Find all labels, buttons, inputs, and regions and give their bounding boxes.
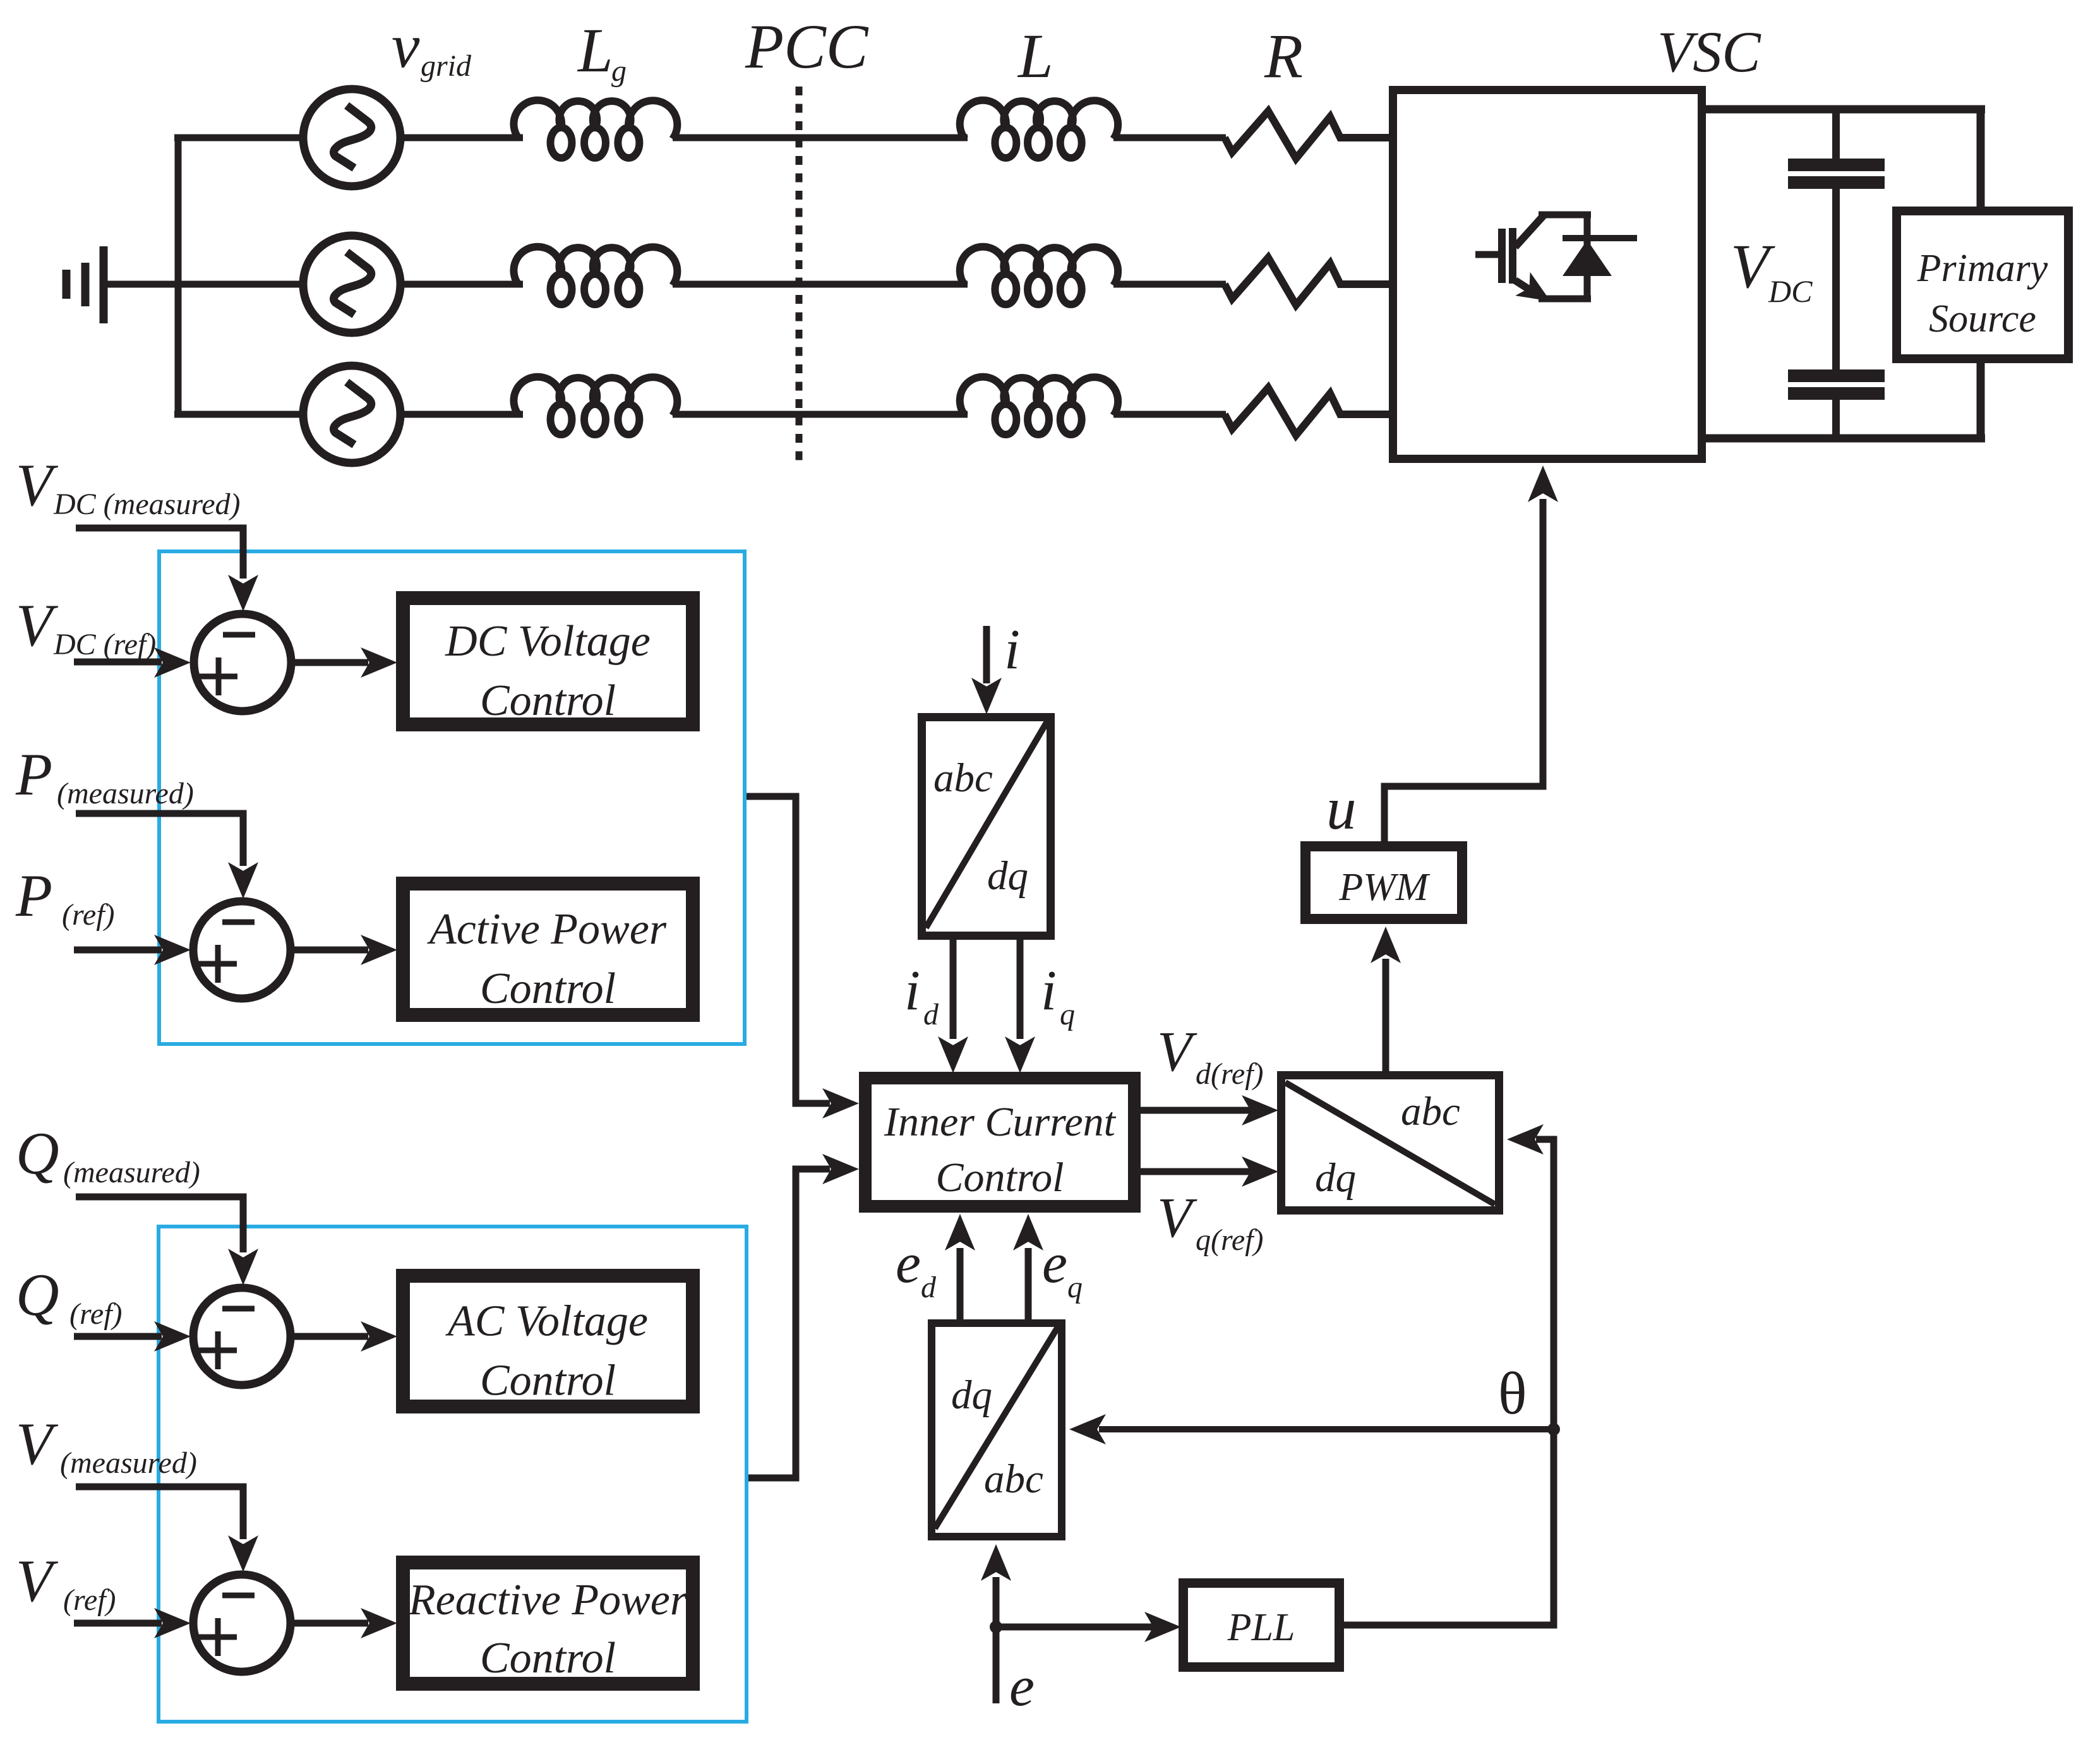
- svg-text:q(ref): q(ref): [1196, 1223, 1264, 1257]
- VSC box U1: [1393, 90, 1702, 459]
- wire V(ref) into summing junction: [74, 1608, 191, 1638]
- svg-text:u: u: [1326, 775, 1357, 842]
- svg-text:d(ref): d(ref): [1196, 1057, 1264, 1091]
- wire iq arrow: [1005, 940, 1035, 1073]
- label Lg: [577, 15, 627, 88]
- svg-text:DC (ref): DC (ref): [53, 628, 156, 661]
- svg-text:L: L: [577, 15, 613, 85]
- svg-text:Q: Q: [16, 1261, 59, 1328]
- svg-text:P: P: [15, 862, 52, 929]
- label AC Voltage Control: [445, 1297, 648, 1405]
- abc to dq block: [922, 717, 1051, 936]
- svg-text:d: d: [921, 1271, 937, 1304]
- wire eq arrow: [1013, 1214, 1043, 1319]
- wire: phase B from bus to source: [174, 281, 299, 288]
- wire summing junction S1 to box: [295, 647, 397, 678]
- svg-text:g: g: [611, 54, 627, 88]
- wire dq-abc to PWM with arrow: [1371, 927, 1401, 1071]
- control group box 2 (cyan): [159, 1227, 747, 1722]
- inductor L1: [960, 100, 1118, 158]
- svg-text:R: R: [1264, 21, 1303, 91]
- IGBT Q1 right rail: [1584, 212, 1591, 302]
- AC source VS3: [303, 366, 400, 463]
- label Q(measured): [16, 1120, 200, 1189]
- svg-text:(measured): (measured): [63, 1156, 200, 1189]
- wire e vertical with arrow into lower block: [981, 1544, 1011, 1703]
- Reactive Power Control box: [403, 1563, 693, 1684]
- svg-text:e: e: [896, 1232, 921, 1295]
- wire phase B L to R: [1113, 281, 1226, 288]
- svg-text:Control: Control: [480, 1357, 616, 1405]
- wire control group 2 to Inner Current Control: [748, 1154, 859, 1478]
- label v_grid: [392, 11, 472, 83]
- svg-text:Inner Current: Inner Current: [884, 1099, 1117, 1145]
- svg-text:DC: DC: [1768, 273, 1813, 309]
- wire summing junction S2 to box: [294, 935, 397, 965]
- wire control group 1 to Inner Current Control: [747, 796, 859, 1119]
- wire capacitor string vertical top: [1832, 109, 1840, 160]
- svg-text:Primary: Primary: [1917, 247, 2048, 290]
- svg-text:Control: Control: [480, 676, 616, 725]
- label Vq(ref): [1157, 1187, 1264, 1257]
- wire DC+ rail: [1706, 105, 1985, 114]
- label Active Power Control: [427, 905, 667, 1013]
- IGBT Q1 top rail: [1539, 212, 1591, 219]
- wire i input arrow: [971, 626, 1002, 714]
- AC source VS2: [303, 236, 400, 333]
- svg-text:PWM: PWM: [1338, 866, 1431, 909]
- DC Voltage Control box: [403, 598, 693, 724]
- svg-text:V: V: [1157, 1187, 1197, 1249]
- wire phase A Lg to L: [673, 135, 968, 141]
- svg-text:q: q: [1067, 1271, 1083, 1304]
- IGBT Q1 gate bar 1: [1498, 229, 1506, 283]
- svg-text:grid: grid: [421, 49, 472, 83]
- PWM box: [1305, 846, 1462, 919]
- IGBT Q1 collector stroke: [1515, 214, 1545, 247]
- wire Vd(ref) arrow: [1141, 1095, 1278, 1125]
- svg-text:DC (measured): DC (measured): [53, 488, 241, 521]
- wire theta vertical from PLL: [1344, 1139, 1554, 1625]
- svg-text:abc: abc: [984, 1456, 1043, 1502]
- svg-text:v: v: [392, 11, 420, 81]
- svg-text:P: P: [15, 741, 52, 808]
- label eq: [1042, 1232, 1083, 1304]
- capacitor C1: [1788, 165, 1885, 183]
- wire summing junction S3 to box: [294, 1321, 397, 1352]
- svg-text:V: V: [16, 592, 59, 659]
- svg-text:Reactive Power: Reactive Power: [408, 1576, 688, 1624]
- wire V(measured) into summing junction: [76, 1487, 258, 1572]
- svg-text:dq: dq: [987, 853, 1028, 899]
- control group box 1 (cyan): [159, 551, 745, 1044]
- svg-text:DC Voltage: DC Voltage: [445, 617, 651, 666]
- junction theta: [1547, 1423, 1560, 1436]
- label iq: [1041, 959, 1075, 1031]
- inductor Lg1: [513, 100, 677, 158]
- label VDC (measured): [16, 452, 241, 521]
- svg-text:Source: Source: [1929, 297, 2036, 340]
- resistor R1: [1225, 111, 1389, 159]
- inductor Lg2: [513, 247, 677, 304]
- label Vd(ref): [1157, 1021, 1264, 1091]
- svg-text:V: V: [1157, 1021, 1197, 1083]
- wire VDC (ref) into summing junction: [74, 647, 191, 678]
- label VDC (ref): [16, 592, 156, 661]
- wire phase C L to R: [1113, 411, 1226, 418]
- IGBT Q1 gate bar 2: [1509, 228, 1516, 284]
- wire e to PLL with arrow: [996, 1612, 1181, 1642]
- Inner Current Control box: [865, 1078, 1134, 1206]
- svg-text:(ref): (ref): [69, 1297, 123, 1331]
- wire Q(measured) into summing junction: [76, 1197, 258, 1285]
- svg-text:Control: Control: [480, 1634, 616, 1683]
- label Inner Current Control: [884, 1099, 1117, 1201]
- label P(ref): [15, 862, 115, 932]
- wire Q(ref) into summing junction: [74, 1321, 191, 1352]
- wire DC- rail: [1706, 435, 1985, 443]
- wire Vq(ref) arrow: [1141, 1156, 1278, 1187]
- svg-text:dq: dq: [1315, 1155, 1356, 1201]
- ground: [66, 246, 178, 323]
- wire phase A L to R: [1113, 135, 1226, 141]
- wire phase B Lg to L: [673, 281, 968, 288]
- label P(measured): [15, 741, 194, 810]
- wire P(ref) into summing junction: [74, 935, 191, 965]
- wire P(measured) into summing junction: [76, 813, 258, 899]
- svg-text:i: i: [1041, 959, 1057, 1022]
- dq to abc block: [1281, 1076, 1499, 1211]
- svg-text:(ref): (ref): [63, 1583, 116, 1617]
- svg-text:(measured): (measured): [60, 1446, 197, 1480]
- wire between capacitors: [1832, 189, 1840, 371]
- wire capacitor string vertical bottom: [1832, 400, 1840, 438]
- svg-text:(ref): (ref): [62, 898, 115, 932]
- IGBT Q1 emitter stroke with arrow: [1515, 272, 1551, 301]
- label Q(ref): [16, 1261, 123, 1331]
- junction e: [990, 1621, 1002, 1633]
- diode D1 triangle: [1563, 240, 1612, 276]
- wire id arrow: [938, 940, 968, 1073]
- wire phase A source to Lg: [404, 135, 523, 141]
- svg-text:q: q: [1060, 998, 1075, 1031]
- svg-text:abc: abc: [1401, 1089, 1460, 1134]
- svg-text:Q: Q: [16, 1120, 59, 1187]
- svg-text:Control: Control: [480, 964, 616, 1013]
- wire summing junction S4 to box: [294, 1608, 397, 1638]
- summing junction S1: [194, 614, 291, 711]
- inductor L2: [960, 247, 1118, 304]
- PCC dashed line: [796, 87, 803, 465]
- svg-text:V: V: [16, 1410, 59, 1477]
- svg-text:L: L: [1017, 21, 1053, 91]
- svg-text:Control: Control: [936, 1155, 1064, 1201]
- resistor R3: [1225, 388, 1389, 435]
- svg-text:V: V: [16, 452, 59, 519]
- wire: phase A from bus to source: [174, 135, 299, 141]
- diode D1 cathode bar: [1563, 235, 1637, 241]
- wire phase C Lg to L: [673, 411, 968, 418]
- svg-text:PLL: PLL: [1227, 1606, 1295, 1649]
- svg-text:θ: θ: [1498, 1360, 1527, 1427]
- svg-text:d: d: [923, 998, 939, 1031]
- inductor L3: [960, 377, 1118, 435]
- label VDC: [1731, 231, 1813, 309]
- wire: neutral bus vertical: [175, 135, 182, 418]
- svg-text:VSC: VSC: [1657, 20, 1761, 84]
- wire: phase C from bus to source: [174, 411, 299, 418]
- svg-text:AC Voltage: AC Voltage: [445, 1297, 648, 1346]
- summing junction S2: [193, 901, 291, 999]
- svg-text:e: e: [1042, 1232, 1067, 1295]
- Primary Source box: [1897, 211, 2068, 359]
- AC Voltage Control box: [403, 1276, 693, 1407]
- wire phase C source to Lg: [404, 411, 523, 418]
- label Primary Source: [1917, 247, 2048, 340]
- svg-text:i: i: [1004, 618, 1020, 681]
- svg-text:i: i: [904, 959, 920, 1022]
- Active Power Control box: [403, 884, 693, 1015]
- label V(ref): [16, 1547, 116, 1617]
- label Reactive Power Control: [408, 1576, 688, 1683]
- IGBT Q1 gate lead: [1475, 251, 1498, 258]
- capacitor C2: [1788, 376, 1885, 393]
- label id: [904, 959, 939, 1031]
- svg-text:(measured): (measured): [57, 777, 194, 810]
- wire phase B source to Lg: [404, 281, 523, 288]
- wire u from PWM to VSC with arrow: [1384, 465, 1558, 841]
- svg-text:abc: abc: [933, 755, 993, 801]
- inductor Lg3: [513, 377, 677, 435]
- AC source VS1: [303, 89, 400, 186]
- PLL box: [1184, 1583, 1340, 1667]
- wire DC right vertical: [1977, 105, 1985, 442]
- resistor R2: [1225, 258, 1389, 305]
- svg-text:PCC: PCC: [745, 11, 869, 81]
- wire ed arrow: [945, 1214, 975, 1319]
- svg-text:V: V: [16, 1547, 59, 1614]
- dq to abc lower block: [932, 1323, 1062, 1537]
- label DC Voltage Control: [445, 617, 651, 725]
- wire theta horizontal with arrow: [1069, 1414, 1554, 1444]
- IGBT Q1 bottom rail: [1539, 296, 1591, 303]
- summing junction S3: [193, 1288, 291, 1385]
- svg-text:dq: dq: [951, 1372, 992, 1418]
- summing junction S4: [193, 1575, 291, 1672]
- label ed: [896, 1232, 937, 1304]
- svg-text:Active Power: Active Power: [427, 905, 667, 954]
- label V(measured): [16, 1410, 197, 1480]
- wire VDC (measured) into summing junction: [76, 528, 258, 611]
- arrow theta into dq-abc block: [1507, 1124, 1544, 1155]
- svg-text:e: e: [1009, 1655, 1035, 1718]
